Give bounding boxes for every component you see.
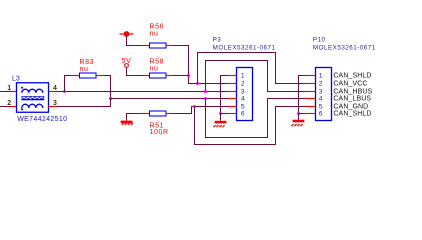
- inductor L3 common-mode choke WE744242510: [17, 83, 49, 113]
- top winding: [22, 89, 43, 93]
- svg-text:6: 6: [241, 111, 245, 118]
- connector P3: [237, 68, 253, 121]
- svg-text:P10: P10: [313, 37, 326, 44]
- pin stubs P3: [228, 76, 237, 114]
- node junction HBUS riser: [204, 90, 207, 93]
- pin 3 of L3: [49, 106, 57, 108]
- svg-text:WE744242510: WE744242510: [17, 116, 67, 123]
- svg-text:2: 2: [241, 81, 245, 88]
- wire R58 right to junction: [174, 75, 189, 77]
- wire R83 left riser: [65, 76, 73, 93]
- wire CANH from page edge: [0, 91, 10, 93]
- pin 1 of L3: [10, 91, 17, 93]
- connector P10: [316, 68, 332, 121]
- pin 2 of L3: [10, 106, 17, 108]
- node junction VCC riser: [196, 82, 199, 85]
- wire R51 to CAN_GND P3.5: [174, 107, 228, 114]
- node junction LBUS under-route branch: [204, 97, 207, 100]
- wire CAN_SHLD P3 pin1 drop: [221, 76, 228, 114]
- node junction SHLD P10: [297, 112, 300, 115]
- polarity dot bottom: [21, 108, 23, 110]
- svg-text:CAN_GND: CAN_GND: [333, 104, 368, 111]
- svg-text:nu: nu: [150, 66, 159, 73]
- svg-text:MOLEX53261-0671: MOLEX53261-0671: [313, 44, 376, 51]
- pin stubs P10: [306, 76, 316, 114]
- svg-text:3: 3: [241, 89, 245, 96]
- wire CAN_HBUS top route to P10.3: [206, 61, 306, 92]
- svg-text:2: 2: [319, 81, 323, 88]
- wire SHLD to P3 pin6: [221, 113, 228, 115]
- 5V circle: [125, 64, 129, 68]
- ground at R51: [121, 114, 143, 125]
- power port bubble feeding R56: [120, 31, 134, 37]
- ground at P3: [213, 114, 226, 128]
- svg-text:4: 4: [241, 96, 245, 103]
- resistor R83: [72, 73, 104, 78]
- node junction LBUS jog: [109, 97, 112, 100]
- bottom winding: [22, 104, 43, 108]
- resistor R51: [143, 111, 174, 116]
- pin 4 of L3: [49, 91, 57, 93]
- core bar: [21, 96, 44, 100]
- ground at P10: [291, 114, 304, 127]
- svg-text:3: 3: [53, 100, 57, 107]
- wire 5V to R58: [127, 67, 143, 75]
- wire CANL from page edge: [0, 106, 10, 108]
- svg-text:4: 4: [319, 96, 323, 103]
- svg-text:nu: nu: [80, 66, 89, 73]
- wire CAN_LBUS L3.3 jog up: [57, 99, 111, 107]
- svg-text:CAN_VCC: CAN_VCC: [333, 81, 367, 88]
- node junction HBUS / R83: [63, 90, 66, 93]
- svg-text:1: 1: [241, 73, 245, 80]
- node junction R56/R58: [187, 74, 190, 77]
- svg-text:2: 2: [7, 100, 11, 107]
- svg-text:6: 6: [319, 111, 323, 118]
- svg-text:P3: P3: [213, 37, 222, 44]
- node junction GND under-route branch: [193, 105, 196, 108]
- wire CAN_HBUS L3.4 to P3.3: [57, 91, 228, 93]
- svg-text:1: 1: [7, 85, 11, 92]
- svg-text:3: 3: [319, 89, 323, 96]
- wire CAN_LBUS under route to P10.4: [206, 99, 306, 138]
- node junction SHLD P3: [219, 112, 222, 115]
- wire CAN_VCC riser and top route to P10.2: [198, 53, 306, 84]
- wire CAN_GND under route to P10.5: [195, 107, 306, 145]
- wire R56 to VCC jog down to P3.2 row: [174, 46, 228, 84]
- resistor R56: [143, 43, 174, 48]
- wire R83 right riser: [104, 76, 111, 99]
- svg-text:nu: nu: [150, 31, 159, 38]
- svg-text:5: 5: [241, 104, 245, 111]
- svg-text:5: 5: [319, 104, 323, 111]
- svg-text:CAN_SHLD: CAN_SHLD: [333, 111, 371, 118]
- svg-text:100R: 100R: [150, 129, 169, 136]
- svg-text:4: 4: [53, 85, 57, 92]
- polarity dot top: [21, 87, 23, 89]
- svg-text:L3: L3: [12, 75, 20, 82]
- svg-text:CAN_SHLD: CAN_SHLD: [333, 73, 371, 80]
- wire CAN_SHLD P10 pin1 drop: [299, 76, 306, 114]
- wire CAN_LBUS to P3.4: [111, 98, 228, 100]
- svg-text:1: 1: [319, 73, 323, 80]
- wire power to R56: [127, 37, 143, 46]
- resistor R58: [143, 73, 174, 78]
- svg-text:CAN_HBUS: CAN_HBUS: [333, 89, 372, 96]
- wire SHLD to P10 pin6: [299, 113, 306, 115]
- svg-text:MOLEX53261-0671: MOLEX53261-0671: [213, 44, 276, 51]
- svg-text:CAN_LBUS: CAN_LBUS: [333, 96, 371, 103]
